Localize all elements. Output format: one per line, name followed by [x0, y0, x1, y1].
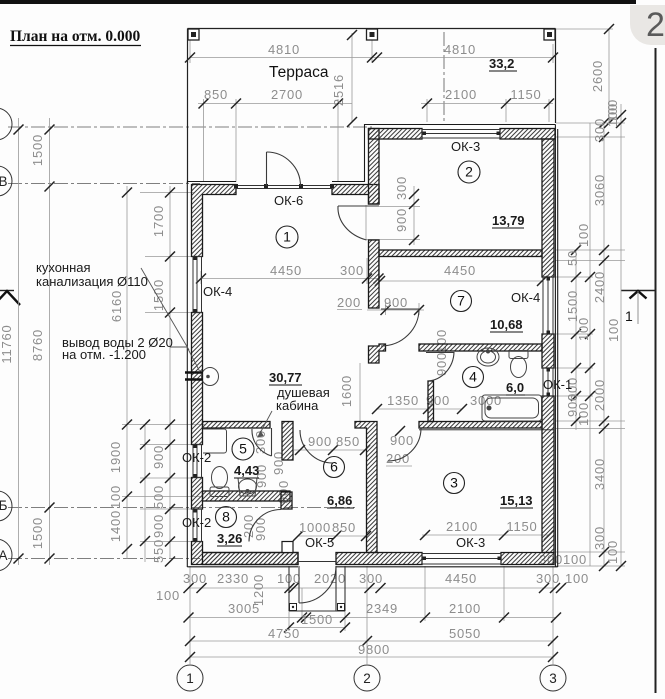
- svg-text:10,68: 10,68: [490, 317, 523, 332]
- left extension horizontals: [140, 192, 195, 194]
- bottom row3/4 ticks: [185, 636, 558, 662]
- room3 row ticks: [420, 530, 554, 540]
- rotated dimension texts: [0, 60, 621, 606]
- wall 7/4: [419, 344, 542, 351]
- window jamb squares: [194, 132, 551, 561]
- sink room5: [238, 478, 257, 496]
- svg-text:4810: 4810: [444, 42, 476, 57]
- svg-text:ОК-3: ОК-3: [456, 535, 485, 550]
- svg-text:ОК-1: ОК-1: [543, 377, 572, 392]
- room 8 circle: [216, 507, 237, 528]
- svg-text:ОК-4: ОК-4: [511, 290, 540, 305]
- svg-text:4450: 4450: [270, 263, 302, 278]
- svg-text:2020: 2020: [314, 571, 346, 586]
- svg-text:2000: 2000: [592, 379, 607, 411]
- svg-text:В: В: [0, 174, 8, 189]
- svg-text:4810: 4810: [268, 42, 300, 57]
- top wall left: right piece with step: [332, 185, 379, 205]
- pipe dashes: [185, 371, 203, 373]
- svg-text:900: 900: [151, 514, 166, 538]
- room1 rows: [196, 274, 547, 316]
- svg-text:50: 50: [565, 250, 580, 266]
- bottom vertical extensions: [189, 566, 191, 665]
- room3 top wall lower face line: [419, 429, 554, 431]
- svg-text:ОК-2: ОК-2: [182, 515, 211, 530]
- OK-6 door leaf + arc: [266, 152, 268, 186]
- divider 6/3 with stub: [355, 422, 377, 553]
- room6 rows ticks: [293, 445, 371, 541]
- svg-text:2330: 2330: [217, 571, 249, 586]
- svg-text:850: 850: [336, 434, 360, 449]
- top terrace dim line 4810+4810: [190, 57, 553, 59]
- room5 right wall stub: [282, 422, 293, 461]
- OK-6 terrace sill: [236, 185, 332, 187]
- top black bar: [0, 0, 636, 4]
- bottom rows: [188, 587, 556, 589]
- wall A lower segment: [369, 344, 386, 363]
- right wall lower: [542, 396, 554, 553]
- area labels underlined: [217, 56, 533, 546]
- svg-text:1200: 1200: [251, 574, 266, 606]
- OK-4 left: [193, 257, 202, 313]
- svg-text:9800: 9800: [358, 642, 390, 657]
- svg-text:11760: 11760: [0, 324, 14, 363]
- wall A top segment: [369, 129, 380, 205]
- top 4810 row: [185, 53, 558, 63]
- svg-text:1900: 1900: [108, 441, 123, 473]
- svg-text:А: А: [0, 548, 8, 563]
- wall A door ticks: [409, 189, 419, 245]
- room1 200/900 row: [367, 309, 424, 311]
- svg-text:5: 5: [239, 441, 247, 457]
- right columns: [575, 250, 577, 430]
- room4 1350/900 row: [376, 408, 462, 410]
- svg-text:1150: 1150: [506, 519, 537, 534]
- svg-text:1500: 1500: [30, 517, 45, 549]
- left wall between OK-2 windows: [192, 478, 203, 510]
- room8 door: [249, 510, 281, 542]
- svg-text:100: 100: [606, 318, 621, 342]
- svg-text:100: 100: [156, 588, 180, 603]
- svg-text:900: 900: [151, 445, 166, 469]
- OK-3 top: [422, 130, 500, 139]
- svg-text:1: 1: [186, 671, 194, 686]
- svg-text:2: 2: [646, 6, 665, 44]
- room2 4450 row: [380, 280, 542, 282]
- outer facing lines: [187, 125, 557, 568]
- room5 door: [271, 428, 273, 456]
- svg-text:2516: 2516: [331, 74, 346, 106]
- svg-text:Терраса: Терраса: [269, 64, 329, 81]
- svg-text:900: 900: [434, 352, 449, 376]
- svg-text:300: 300: [183, 571, 207, 586]
- svg-text:300: 300: [536, 571, 560, 586]
- room 3 circle: [444, 473, 465, 494]
- left wall bottom corner: [192, 542, 299, 565]
- svg-text:100: 100: [605, 540, 620, 564]
- shower tray room5: [203, 429, 227, 453]
- svg-text:4450: 4450: [445, 571, 477, 586]
- svg-text:550: 550: [151, 539, 166, 563]
- svg-text:850: 850: [332, 520, 356, 535]
- svg-text:3,26: 3,26: [217, 531, 242, 546]
- wall A door1 extension lines: [379, 206, 420, 208]
- svg-text:100: 100: [563, 552, 587, 567]
- wall 2/7: [379, 250, 542, 257]
- svg-text:2400: 2400: [592, 271, 607, 303]
- svg-text:ОК-4: ОК-4: [203, 284, 232, 299]
- room6 900/850 row: [294, 449, 366, 451]
- svg-text:2600: 2600: [590, 60, 605, 92]
- bottom wall left of entrance: [203, 553, 299, 565]
- svg-text:3: 3: [549, 671, 557, 686]
- left columns ticks: [14, 125, 24, 564]
- right edge vertical line: [655, 48, 657, 693]
- toilet room5: [210, 487, 229, 497]
- svg-text:канализация Ø110: канализация Ø110: [36, 274, 148, 289]
- svg-text:300: 300: [394, 176, 409, 200]
- axis В horizontal: [8, 183, 200, 185]
- svg-text:1150: 1150: [510, 87, 541, 102]
- 2600 vertical right of terrace: [608, 29, 610, 123]
- 850/2700/2100/1150 row: [199, 99, 555, 109]
- svg-text:8760: 8760: [30, 329, 45, 361]
- room3 door: [388, 429, 421, 462]
- room4 row ticks: [372, 404, 467, 414]
- svg-text:1: 1: [625, 308, 633, 324]
- left wall top corner piece: [192, 185, 237, 257]
- room8 right wall: [281, 492, 292, 509]
- axis Б horizontal: [8, 507, 355, 509]
- wall A mid segment: [369, 240, 380, 308]
- 2516/2600 vert: [347, 24, 626, 128]
- axis А horizontal: [8, 558, 200, 560]
- svg-text:2100: 2100: [445, 87, 477, 102]
- wall 5/8: [203, 491, 291, 501]
- svg-text:кухонная: кухонная: [36, 260, 91, 275]
- OK-2 upper: [193, 445, 202, 478]
- terrace vertical dashed line: [443, 32, 445, 122]
- right wall between windows: [542, 334, 554, 368]
- svg-text:1400: 1400: [108, 510, 123, 542]
- OK-1 right: [543, 368, 553, 396]
- OK-5 entrance sill: [298, 561, 336, 563]
- svg-text:900: 900: [394, 208, 409, 232]
- svg-text:2: 2: [363, 671, 371, 686]
- room number circles: [216, 161, 484, 528]
- svg-text:200: 200: [386, 451, 410, 466]
- room 7 circle: [451, 291, 472, 312]
- svg-text:ОК-6: ОК-6: [274, 193, 303, 208]
- room5 top wall: [203, 422, 271, 429]
- svg-text:ОК-2: ОК-2: [182, 450, 211, 465]
- svg-text:900: 900: [253, 517, 268, 541]
- 2516 vertical: [351, 33, 353, 122]
- svg-text:900: 900: [390, 433, 414, 448]
- toilet room4: [509, 351, 528, 359]
- svg-text:100: 100: [605, 103, 620, 127]
- svg-text:Б: Б: [0, 498, 8, 513]
- svg-text:1: 1: [283, 229, 291, 245]
- section arrow right: [621, 291, 655, 325]
- svg-text:300: 300: [340, 263, 364, 278]
- svg-text:1500: 1500: [301, 612, 333, 627]
- svg-text:100: 100: [576, 402, 591, 426]
- svg-text:850: 850: [204, 87, 228, 102]
- svg-text:33,2: 33,2: [489, 56, 514, 71]
- room1 4450/300 row: [201, 278, 380, 280]
- room 2 circle: [458, 161, 480, 183]
- svg-text:15,13: 15,13: [500, 493, 533, 508]
- svg-text:8: 8: [222, 509, 230, 525]
- top wall right section w/ corner: [369, 129, 423, 140]
- svg-text:2100: 2100: [446, 519, 478, 534]
- svg-text:2700: 2700: [271, 87, 303, 102]
- wall A lower door (room7): [381, 308, 419, 310]
- 1600 vertical room1: [359, 363, 361, 425]
- svg-text:ОК-5: ОК-5: [305, 535, 334, 550]
- room 6 circle: [324, 457, 345, 478]
- svg-text:на отм. -1.200: на отм. -1.200: [62, 347, 146, 362]
- svg-text:6,0: 6,0: [506, 380, 524, 395]
- room 5 circle: [232, 438, 254, 460]
- axis circle 1 bottom: [0, 108, 566, 691]
- svg-text:2349: 2349: [366, 601, 398, 616]
- right column ticks: [599, 118, 609, 571]
- svg-text:1000: 1000: [299, 520, 331, 535]
- grey blob top right: [630, 5, 665, 45]
- bottom row2 ticks: [184, 613, 562, 623]
- room4 door: [426, 352, 454, 354]
- svg-text:6160: 6160: [109, 290, 124, 322]
- svg-text:ОК-3: ОК-3: [451, 139, 480, 154]
- OK-3 bottom: [422, 554, 501, 565]
- room4 left wall: [428, 381, 434, 422]
- bottom wall right corner: [501, 553, 554, 565]
- axis Г horizontal: [8, 126, 372, 128]
- svg-text:500: 500: [151, 485, 166, 509]
- svg-text:5050: 5050: [449, 626, 481, 641]
- svg-text:4750: 4750: [268, 626, 300, 641]
- svg-text:3060: 3060: [592, 174, 607, 206]
- svg-text:6,86: 6,86: [327, 493, 352, 508]
- room6 top door: [300, 430, 333, 463]
- svg-text:200: 200: [337, 295, 361, 310]
- room8 stub outline white: [282, 542, 293, 553]
- room 4 circle: [463, 367, 484, 388]
- svg-text:300: 300: [359, 571, 383, 586]
- svg-text:900: 900: [308, 434, 332, 449]
- right extension horizontals: [556, 122, 625, 124]
- left columns: [18, 118, 20, 565]
- washer circle on left wall: [202, 368, 219, 386]
- 1500 porch ticks: [284, 623, 350, 633]
- sink room4: [477, 348, 499, 366]
- room 1 circle: [276, 226, 298, 248]
- entrance door: [299, 566, 336, 603]
- right wall upper: [542, 139, 554, 277]
- bottom wall entrance..window: [336, 553, 422, 565]
- svg-text:100: 100: [108, 485, 123, 509]
- svg-text:4,43: 4,43: [234, 463, 259, 478]
- OK-2 lower: [193, 509, 202, 542]
- svg-text:13,79: 13,79: [492, 213, 525, 228]
- svg-text:кабина: кабина: [276, 398, 319, 413]
- svg-text:3: 3: [450, 475, 458, 491]
- svg-text:6: 6: [330, 459, 338, 475]
- room3 2100/1150 row: [422, 534, 549, 536]
- svg-text:2: 2: [465, 164, 473, 180]
- room3 top wall: [419, 422, 542, 429]
- svg-text:1350: 1350: [387, 393, 419, 408]
- svg-text:4450: 4450: [444, 263, 476, 278]
- svg-text:План на отм. 0.000: План на отм. 0.000: [10, 28, 140, 45]
- svg-text:100: 100: [576, 317, 591, 341]
- left wall mid (below OK-4 window): [192, 313, 203, 445]
- svg-text:30,77: 30,77: [269, 370, 302, 385]
- svg-text:900: 900: [384, 295, 408, 310]
- svg-text:4: 4: [469, 369, 477, 385]
- room6 1000/850 row: [298, 535, 366, 537]
- svg-text:100: 100: [565, 571, 589, 586]
- OK-4 right: [543, 277, 553, 334]
- svg-text:3400: 3400: [592, 458, 607, 490]
- svg-text:100: 100: [576, 223, 591, 247]
- svg-text:1700: 1700: [151, 205, 166, 237]
- section arrow left: [0, 290, 14, 292]
- svg-text:7: 7: [457, 293, 465, 309]
- bottom row1 ticks: [184, 583, 567, 593]
- dim line 850 2700 / 2100 1150: [198, 103, 352, 105]
- svg-text:1500: 1500: [30, 134, 45, 166]
- svg-text:2100: 2100: [449, 601, 481, 616]
- wall A upper door (room2): [338, 205, 379, 207]
- svg-text:1600: 1600: [339, 375, 354, 407]
- bathtub: [482, 395, 542, 421]
